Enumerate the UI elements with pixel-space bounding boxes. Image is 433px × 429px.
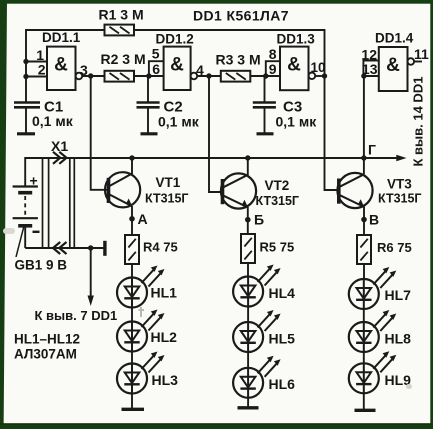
gate DD1.2 box xyxy=(164,47,191,90)
node DD1.2 input xyxy=(146,73,151,78)
LED HL7 xyxy=(349,267,397,309)
transistor VT3 xyxy=(337,173,372,208)
output bubble DD1.2 pin 4 xyxy=(191,73,198,80)
battery short plate 1 xyxy=(18,191,32,195)
wire HL1 to HL2 xyxy=(131,308,133,322)
svg-text:Г: Г xyxy=(368,142,376,158)
svg-text:R5 75: R5 75 xyxy=(260,240,295,255)
LED HL1 xyxy=(117,266,165,308)
gate DD1.1 box xyxy=(47,47,76,90)
output bubble DD1.3 pin 10 xyxy=(309,73,316,80)
battery plate 2 long xyxy=(13,217,38,219)
node VT3 collector on rail xyxy=(361,155,366,160)
svg-text:GB1 9 В: GB1 9 В xyxy=(15,258,68,273)
LED HL6 xyxy=(233,356,281,398)
node bottom junction xyxy=(88,245,93,250)
supply rail +9V xyxy=(25,157,398,159)
svg-text:HL3: HL3 xyxy=(152,372,179,388)
transistor VT2 xyxy=(221,173,256,208)
wire HL6 to ground bar xyxy=(247,398,249,408)
battery GB1 top lead xyxy=(24,157,26,187)
battery plus plate xyxy=(13,185,38,187)
capacitor C3 xyxy=(253,101,276,104)
svg-text:0,1 мк: 0,1 мк xyxy=(32,113,74,129)
svg-text:11: 11 xyxy=(414,46,429,62)
output bubble DD1.4 pin 11 xyxy=(408,58,415,65)
svg-text:5: 5 xyxy=(152,46,160,62)
svg-text:В: В xyxy=(369,212,379,228)
svg-text:2: 2 xyxy=(38,61,46,77)
wire DD1.4 output stub xyxy=(414,61,422,63)
wire HL3 to ground bar xyxy=(131,394,133,410)
svg-text:КТ315Г: КТ315Г xyxy=(145,192,189,206)
svg-text:DD1.1: DD1.1 xyxy=(42,30,81,45)
pin 2 lead DD1.1 xyxy=(26,76,47,78)
svg-text:HL4: HL4 xyxy=(269,285,296,301)
svg-text:&: & xyxy=(386,55,400,76)
resistor R6 xyxy=(357,235,371,264)
wire VT2 emitter to R5 xyxy=(247,207,249,234)
wire DD1.1 output down to VT1 base xyxy=(91,76,108,190)
svg-text:+: + xyxy=(30,173,38,189)
svg-text:КТ315Г: КТ315Г xyxy=(378,192,422,206)
svg-text:R4 75: R4 75 xyxy=(143,240,178,255)
svg-text:HL6: HL6 xyxy=(269,376,296,392)
gate DD1.4 box xyxy=(379,47,408,91)
capacitor C2 xyxy=(137,101,160,104)
svg-text:DD1 К561ЛА7: DD1 К561ЛА7 xyxy=(193,8,289,24)
wire R6 to HL7 xyxy=(363,264,365,279)
wire VT2 collector to rail xyxy=(247,158,249,175)
common bar under C1 xyxy=(17,132,35,135)
svg-text:HL2: HL2 xyxy=(151,329,178,345)
wire R5 to HL4 xyxy=(247,263,249,277)
battery minus sign xyxy=(33,231,40,233)
svg-text:DD1.3: DD1.3 xyxy=(277,32,316,47)
svg-text:АЛ307АМ: АЛ307АМ xyxy=(14,347,77,362)
wire R3 to DD1.3 inputs xyxy=(250,75,280,77)
svg-text:HL8: HL8 xyxy=(385,331,412,347)
svg-text:R2 3 M: R2 3 M xyxy=(101,51,146,67)
wire VT1 emitter to R4 xyxy=(131,206,133,235)
svg-text:HL7: HL7 xyxy=(385,287,412,303)
svg-text:&: & xyxy=(170,55,184,76)
LED HL2 xyxy=(117,310,165,352)
wire DD1.2 output to R3 xyxy=(197,75,221,77)
wire DD1.4 inputs down to rail xyxy=(363,76,365,158)
pin 1 lead DD1.1 xyxy=(26,61,47,63)
LED HL8 xyxy=(349,310,397,352)
wire HL5 to HL6 xyxy=(247,352,249,368)
node pin1 junction xyxy=(23,59,28,64)
node DD1.4 input xyxy=(361,73,366,78)
scan artifact smudge right of HL9 xyxy=(406,384,412,389)
svg-text:0,1 мк: 0,1 мк xyxy=(276,114,318,130)
svg-text:HL1: HL1 xyxy=(151,285,178,301)
arrow to pin 7 DD1 xyxy=(90,248,92,297)
ground bar column 1 xyxy=(122,408,145,411)
svg-text:VT3: VT3 xyxy=(387,177,412,192)
svg-text:&: & xyxy=(287,55,301,76)
wire DD1.3 output to node xyxy=(315,75,324,77)
svg-text:DD1.4: DD1.4 xyxy=(375,31,414,46)
LED HL4 xyxy=(233,265,281,307)
wire HL7 to HL8 xyxy=(363,309,365,322)
wire HL9 to ground bar xyxy=(363,393,365,410)
wire R2 to DD1.2 inputs xyxy=(134,75,164,77)
LED HL5 xyxy=(233,310,281,352)
pin 8 step DD1.3 xyxy=(266,61,280,76)
common bar under C2 xyxy=(141,132,158,135)
resistor R4 xyxy=(125,235,139,264)
wire DD1.2 output down to VT2 base xyxy=(209,76,222,192)
transistor VT1 xyxy=(105,172,140,207)
green page border frame xyxy=(0,0,433,4)
wire HL2 to HL3 xyxy=(131,352,133,364)
output bubble DD1.1 pin 3 xyxy=(76,73,83,80)
node A xyxy=(129,216,135,222)
node DD1.3 output xyxy=(322,73,327,78)
svg-text:10: 10 xyxy=(311,60,326,75)
svg-text:0,1 мк: 0,1 мк xyxy=(158,114,200,130)
resistor R5 xyxy=(241,234,255,263)
svg-text:&: & xyxy=(54,55,68,76)
wire HL4 to HL5 xyxy=(247,307,249,323)
svg-text:9: 9 xyxy=(269,61,277,77)
resistor R2 xyxy=(105,71,135,82)
battery dashed middle xyxy=(24,196,26,216)
resistor R3 xyxy=(221,71,251,82)
svg-text:К выв. 7 DD1: К выв. 7 DD1 xyxy=(35,308,118,323)
battery leader line xyxy=(16,226,24,257)
battery bottom lead xyxy=(24,228,26,249)
wire DD1.3 output down to VT3 base xyxy=(325,76,339,190)
scan artifact smudge left of battery xyxy=(3,228,15,234)
rail arrowhead to pin 14 xyxy=(396,155,406,161)
wire top feedback right segment with corner down to DD1.3 output node xyxy=(134,30,325,76)
common terminal bar xyxy=(103,241,106,256)
node VT1 collector on rail xyxy=(129,155,134,160)
scan artifact gray t mark xyxy=(139,307,145,317)
svg-text:R1 3 M: R1 3 M xyxy=(99,7,144,23)
wire C2 to common xyxy=(147,109,149,134)
svg-text:К выв. 14 DD1: К выв. 14 DD1 xyxy=(411,77,426,167)
wire VT1 collector to rail xyxy=(131,158,133,175)
node DD1.1 output xyxy=(88,73,93,78)
connector chevron top xyxy=(53,152,67,164)
wire C3 from node xyxy=(264,76,266,103)
battery short plate 2 xyxy=(18,224,32,228)
ground bar column 3 xyxy=(355,409,376,412)
wire VT3 collector to rail xyxy=(363,158,365,174)
svg-text:Б: Б xyxy=(254,212,264,228)
svg-text:HL1–HL12: HL1–HL12 xyxy=(14,332,80,347)
svg-text:DD1.2: DD1.2 xyxy=(156,32,194,47)
svg-text:R3 3 M: R3 3 M xyxy=(216,52,261,68)
node DD1.2 output xyxy=(206,73,211,78)
wire R4 to HL1 xyxy=(131,264,133,278)
pin 5 step DD1.2 xyxy=(149,61,164,76)
wire top feedback left segment with corner down to C1 xyxy=(26,30,105,103)
node DD1.3 input xyxy=(263,73,268,78)
svg-text:R6 75: R6 75 xyxy=(377,240,412,255)
resistor R1 xyxy=(105,25,135,36)
node B (Cyrillic Be) xyxy=(245,217,251,223)
svg-text:А: А xyxy=(138,211,148,227)
ground bar column 2 xyxy=(238,406,259,409)
wire C2 from node xyxy=(147,76,149,103)
connector X1 lines xyxy=(42,157,44,248)
svg-text:VT1: VT1 xyxy=(156,175,181,190)
node pin2 junction xyxy=(23,74,28,79)
svg-text:8: 8 xyxy=(269,46,277,62)
connector chevron bottom xyxy=(53,242,67,254)
bottom common wire xyxy=(25,247,103,249)
wire C1 to common xyxy=(25,109,27,134)
svg-text:VT2: VT2 xyxy=(265,178,290,193)
gate DD1.3 box xyxy=(280,47,309,91)
LED HL3 xyxy=(117,352,165,394)
svg-text:HL5: HL5 xyxy=(269,331,296,347)
svg-text:6: 6 xyxy=(152,61,160,77)
wire HL8 to HL9 xyxy=(363,352,365,363)
pin 12 step DD1.4 xyxy=(363,61,378,77)
wire DD1.1 output to R2 xyxy=(82,75,104,77)
node VT2 collector on rail xyxy=(245,155,250,160)
svg-text:КТ315Г: КТ315Г xyxy=(256,194,300,208)
common bar under C3 xyxy=(257,132,274,135)
node V (Cyrillic Ve) xyxy=(361,217,367,223)
wire VT3 emitter to R6 xyxy=(363,207,365,236)
wire C3 to common xyxy=(264,109,266,134)
LED HL9 xyxy=(349,351,397,393)
capacitor C1 xyxy=(14,101,40,104)
